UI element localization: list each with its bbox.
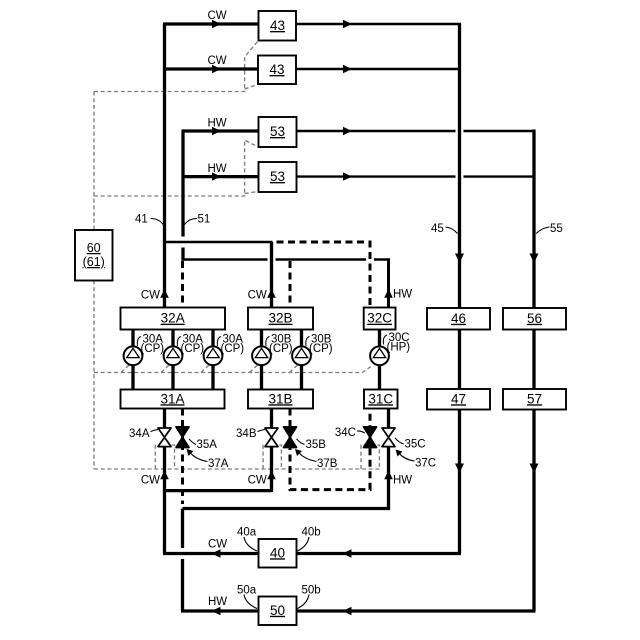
box 46 <box>427 308 490 330</box>
label valve 35B <box>297 439 327 451</box>
pump 30A-1 <box>124 346 143 365</box>
arrow CW into 32B <box>267 289 276 298</box>
wire CW collect header <box>165 489 272 492</box>
dashed drop into 32A <box>181 261 184 308</box>
svg-text:53: 53 <box>270 169 285 184</box>
label valve 35C <box>395 438 426 451</box>
arrow 53a out <box>343 127 352 135</box>
arrow into box 40 <box>343 549 352 557</box>
dashed drop into 32B <box>289 261 292 308</box>
wire 31C outlet through valve 35C <box>387 409 390 511</box>
pump 30A-3 <box>204 346 223 365</box>
svg-text:57: 57 <box>527 391 542 406</box>
svg-text:40b: 40b <box>302 527 321 539</box>
svg-text:HW: HW <box>208 596 227 608</box>
svg-text:34C: 34C <box>335 427 356 439</box>
label valve 35A <box>189 439 217 451</box>
valve 34C (closed) <box>364 427 377 448</box>
svg-text:43: 43 <box>269 62 284 77</box>
arrow HW at box 50 <box>212 607 221 615</box>
pump 30B-1 <box>252 346 271 365</box>
valve 35A (closed) <box>176 427 189 448</box>
pump 30C <box>370 346 389 365</box>
wire HW down to 50 line <box>181 509 184 612</box>
label pump 30B-2 <box>306 334 333 355</box>
arrow CW under valve 34A <box>160 471 169 480</box>
svg-text:(61): (61) <box>83 255 105 269</box>
valve 34A (open) <box>158 428 171 447</box>
svg-text:34A: 34A <box>129 428 150 440</box>
arrow into box 50 <box>343 607 352 615</box>
svg-text:50b: 50b <box>302 585 321 597</box>
svg-text:(CP): (CP) <box>309 343 333 355</box>
valve 35B (closed) <box>284 427 297 448</box>
arrow riser 45 upper <box>455 254 464 264</box>
valve 35C (open) <box>382 428 395 447</box>
arrow HW into 32C <box>384 289 393 298</box>
valve control stubs B <box>263 445 281 469</box>
svg-text:37C: 37C <box>415 458 436 470</box>
label port 40a <box>237 527 257 552</box>
wire 53a output <box>297 130 536 132</box>
box 31C <box>364 390 398 409</box>
svg-text:50a: 50a <box>237 585 257 597</box>
svg-text:CW: CW <box>208 10 227 22</box>
arrow CW feed 43b <box>212 65 221 73</box>
box 43a <box>259 11 297 41</box>
label pump 30A-3 <box>217 334 244 355</box>
valve control stubs A <box>155 445 174 469</box>
control rail valves <box>94 468 380 470</box>
arrow CW feed 43a <box>212 20 221 28</box>
label pump 30A-1 <box>137 334 164 355</box>
valve control stubs C <box>361 445 379 469</box>
wire HW to box 50 <box>181 609 259 612</box>
wire HW collect header <box>183 507 391 510</box>
arrow riser 55 lower <box>530 464 539 474</box>
svg-text:32C: 32C <box>367 311 392 326</box>
svg-text:35B: 35B <box>306 439 327 451</box>
svg-text:40: 40 <box>270 545 285 560</box>
svg-text:60: 60 <box>87 241 101 255</box>
svg-text:32A: 32A <box>161 311 185 326</box>
svg-text:32B: 32B <box>268 311 292 326</box>
svg-text:56: 56 <box>527 311 542 326</box>
svg-text:55: 55 <box>550 223 563 235</box>
wire HW supply main vertical 51 <box>181 131 184 261</box>
box 60 controller <box>75 230 113 281</box>
svg-text:37B: 37B <box>317 458 338 470</box>
box 31A <box>121 390 225 409</box>
control network (gray dotted) <box>94 42 380 470</box>
arrow HW feed 53b <box>212 172 221 180</box>
wire HW return riser 55 <box>532 130 535 612</box>
wire 43a output <box>296 23 461 25</box>
label valve 34A <box>129 428 158 440</box>
wire 31B outlet through valve 34B <box>270 409 273 493</box>
svg-text:47: 47 <box>451 391 466 406</box>
dashed CW header extension into 32C <box>273 242 371 308</box>
pump pipes 32A-31A <box>133 330 213 390</box>
box 47 <box>427 389 490 410</box>
box 40 <box>259 539 297 568</box>
pump 30B-2 <box>292 346 311 365</box>
arrow riser 55 upper <box>530 254 539 264</box>
svg-text:CW: CW <box>208 55 227 67</box>
wire CW return riser 45 <box>458 24 461 554</box>
box 57 <box>503 389 566 410</box>
svg-text:CW: CW <box>248 475 267 487</box>
label 41 <box>135 214 163 226</box>
wire CW header row <box>165 241 273 243</box>
svg-text:37A: 37A <box>208 458 229 470</box>
control branch to 43 boxes <box>94 42 258 92</box>
control rail pumps <box>94 366 372 373</box>
pump pipes 32B-31B <box>262 330 302 390</box>
svg-text:HW: HW <box>208 118 227 130</box>
wire HW feed to 53b <box>183 175 259 178</box>
label port 50b <box>298 585 321 609</box>
svg-text:(CP): (CP) <box>181 343 205 355</box>
wire CW supply main vertical 41 <box>163 24 166 308</box>
label pointer 37A <box>187 449 229 470</box>
svg-text:35C: 35C <box>405 439 426 451</box>
svg-text:(CP): (CP) <box>269 343 293 355</box>
dashed 31A outlet through valve 35A <box>181 409 184 505</box>
wire 31A outlet through valve 34A <box>163 409 166 554</box>
wire riser 55 into box 50 <box>297 609 536 612</box>
box 32A <box>121 308 226 330</box>
svg-text:41: 41 <box>135 214 148 226</box>
label pump 30A-2 <box>177 334 204 355</box>
svg-text:46: 46 <box>451 311 466 326</box>
svg-text:(CP): (CP) <box>141 343 165 355</box>
svg-text:CW: CW <box>141 290 160 302</box>
svg-text:43: 43 <box>270 18 285 33</box>
wire riser 45 into box 40 <box>297 552 462 555</box>
label 55 <box>536 223 563 235</box>
wire HW feed to 53a <box>182 129 259 132</box>
control branch to 53 boxes <box>94 140 258 196</box>
label port 40b <box>298 527 321 552</box>
svg-text:35A: 35A <box>197 439 218 451</box>
svg-text:(CP): (CP) <box>221 343 245 355</box>
label pump 30B-1 <box>266 334 293 355</box>
box 53a <box>259 117 297 147</box>
svg-text:CW: CW <box>208 539 227 551</box>
flow arrows <box>160 20 538 615</box>
label 45 <box>431 223 458 235</box>
solid piping <box>133 24 536 611</box>
label pointer 37B <box>295 449 338 470</box>
box 53b <box>259 162 297 192</box>
label valve 34B <box>236 428 265 440</box>
svg-text:31A: 31A <box>160 391 184 406</box>
pump pipe 32C-31C <box>378 330 381 390</box>
svg-text:51: 51 <box>198 214 211 226</box>
wire CW drop into 32B <box>270 242 273 308</box>
label port 50a <box>237 585 257 609</box>
pump 30A-2 <box>164 346 183 365</box>
valve 34B (open) <box>265 428 278 447</box>
dashed piping <box>183 242 371 504</box>
control riser lower <box>93 281 95 470</box>
svg-text:50: 50 <box>270 603 285 618</box>
label pump 30C <box>383 332 410 353</box>
arrow HW feed 53a <box>212 127 221 135</box>
svg-text:31B: 31B <box>268 391 292 406</box>
svg-text:HW: HW <box>393 475 412 487</box>
svg-text:45: 45 <box>431 223 444 235</box>
arrow CW into 32A <box>160 289 169 298</box>
arrow CW at box 40 <box>212 549 221 557</box>
wire CW feed to 43a <box>163 22 258 25</box>
arrow CW under valve 34B <box>267 471 276 480</box>
arrow 43a out <box>343 20 352 28</box>
label valve 34C <box>335 427 365 439</box>
wire CW to box 40 <box>163 552 259 555</box>
svg-text:40a: 40a <box>237 527 257 539</box>
wire 53b output <box>297 175 533 177</box>
pump control taps <box>121 365 297 372</box>
svg-text:34B: 34B <box>236 428 257 440</box>
wire CW feed to 43b <box>165 67 259 70</box>
box 32C <box>364 308 396 330</box>
svg-text:CW: CW <box>141 475 160 487</box>
arrow 53b out <box>343 172 352 180</box>
label 51 <box>185 214 211 226</box>
box 50 <box>259 597 297 626</box>
svg-text:(HP): (HP) <box>387 341 411 353</box>
box 43b <box>258 56 296 85</box>
svg-text:HW: HW <box>208 163 227 175</box>
box 32B <box>248 308 313 330</box>
control riser upper <box>93 92 95 231</box>
arrow HW under valve 35C <box>384 471 393 480</box>
label pointer 37C <box>396 450 437 470</box>
arrow riser 45 lower <box>455 464 464 474</box>
wire 43b output <box>296 68 458 70</box>
box 56 <box>503 308 566 330</box>
svg-text:31C: 31C <box>368 391 393 406</box>
dashed 31B outlet through valve 35B and header to 34C <box>290 409 370 490</box>
wire HW header row <box>183 258 389 260</box>
svg-text:CW: CW <box>248 290 267 302</box>
arrow 43b out <box>343 65 352 73</box>
svg-text:HW: HW <box>393 289 412 301</box>
box 31B <box>248 390 313 409</box>
svg-text:53: 53 <box>270 124 285 139</box>
